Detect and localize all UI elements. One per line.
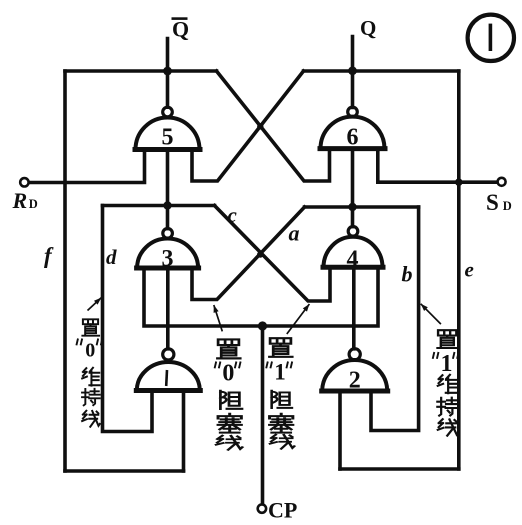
svg-text:Q: Q xyxy=(360,16,376,40)
svg-text:c: c xyxy=(228,203,238,227)
label pointer: set-1 maintaining line xyxy=(421,304,441,324)
junction: Q-bar node xyxy=(163,67,172,76)
svg-text:1: 1 xyxy=(441,351,453,377)
svg-text:0: 0 xyxy=(85,340,95,362)
junction: upper cross-over blob xyxy=(257,123,263,129)
NAND gate 5 xyxy=(133,107,203,150)
svg-text:a: a xyxy=(289,221,300,246)
wire: gate 6 centre leg to gate 4 output xyxy=(351,149,355,227)
wire: bottom-right horizontal to gate 2 input xyxy=(340,467,459,471)
terminal circle SD xyxy=(498,178,506,186)
svg-text:D: D xyxy=(29,197,38,211)
wire: RD input line to gate 5 left leg xyxy=(29,150,145,183)
label RD xyxy=(12,188,38,213)
wire: gate 5 centre leg to gate 3 output xyxy=(166,150,170,229)
junction: gate 4 output node xyxy=(348,203,356,211)
junction: CP node xyxy=(258,321,267,330)
wire: bottom-left horizontal to gate 1 input xyxy=(65,469,184,473)
svg-text:D: D xyxy=(503,199,512,213)
svg-text:d: d xyxy=(106,245,117,269)
terminal circle RD xyxy=(20,178,28,186)
wire: cross diagonal c to gate 4 input xyxy=(215,206,331,302)
NAND gate 6 xyxy=(318,107,388,150)
annotation: set-1 blocking line text column xyxy=(266,338,294,449)
figure number mark (circled 1) xyxy=(468,15,514,61)
svg-text:5: 5 xyxy=(162,125,174,151)
svg-text:1: 1 xyxy=(274,360,286,385)
svg-text:S: S xyxy=(486,190,499,215)
annotation: set-0 maintaining line text column xyxy=(76,319,102,426)
wire: CP vertical line xyxy=(261,326,265,504)
svg-text:2: 2 xyxy=(349,368,361,394)
NAND gate 3 xyxy=(134,229,201,273)
svg-text:CP: CP xyxy=(268,498,297,523)
svg-text:6: 6 xyxy=(347,125,359,151)
wire: right outer rail xyxy=(457,71,461,469)
svg-text:3: 3 xyxy=(162,246,174,272)
wire: set-0 maintaining line d xyxy=(103,206,153,432)
junction: lower cross-over blob xyxy=(257,251,263,257)
junction: Q node xyxy=(348,66,357,75)
wire: gate 3 centre leg to gate 1 output xyxy=(166,268,170,349)
wire: CP bus (gate 3 left leg to gate 4 right leg) xyxy=(144,267,378,326)
svg-text:4: 4 xyxy=(347,247,359,273)
terminal circle CP xyxy=(258,504,266,512)
svg-text:Q: Q xyxy=(172,17,189,42)
wire: gate 1 right input leg xyxy=(182,391,186,472)
label pointer: set-1 blocking line xyxy=(287,304,310,334)
wire: inner top-right horizontal (gate 4 output node) xyxy=(305,205,419,209)
label Q-bar xyxy=(172,17,190,42)
wire: gate 2 left input leg xyxy=(338,391,342,469)
wire: inner top-left horizontal (gate 3 output node) xyxy=(103,204,215,208)
annotation: set-1 maintaining line text column xyxy=(433,330,459,435)
wire: cross diagonal Q to gate 5 input xyxy=(192,71,304,181)
wire: gate 4 centre leg to gate 2 output xyxy=(352,267,356,349)
wire: SD input line from gate 6 right leg xyxy=(378,149,498,183)
label pointer: set-0 blocking line xyxy=(214,305,223,331)
wire: left outer rail xyxy=(63,71,67,471)
wire: Q-bar output stem xyxy=(166,39,170,108)
svg-text:R: R xyxy=(12,188,28,213)
wire: Q output stem xyxy=(351,37,355,108)
NAND gate 1 xyxy=(134,349,203,391)
svg-text:b: b xyxy=(402,262,413,287)
junction: SD line crossing blob xyxy=(455,178,463,186)
wire: set-1 maintaining line b xyxy=(371,207,419,431)
label pointer: set-0 maintaining line xyxy=(88,298,102,311)
NAND gate 4 xyxy=(321,227,386,273)
wire: cross diagonal Q-bar to gate 6 input xyxy=(217,71,330,181)
svg-text:0: 0 xyxy=(222,361,234,387)
wire: top-left horizontal (Q-bar node to cross) xyxy=(65,69,217,73)
wire: top-right horizontal (Q node to right rail) xyxy=(304,69,459,73)
NAND gate 2 xyxy=(319,349,390,394)
junction: gate 3 output node xyxy=(163,201,171,209)
annotation: set-0 blocking line text column xyxy=(215,339,243,449)
wire: cross diagonal a to gate 3 input xyxy=(192,207,305,300)
label SD xyxy=(486,190,512,215)
svg-text:e: e xyxy=(465,258,474,282)
